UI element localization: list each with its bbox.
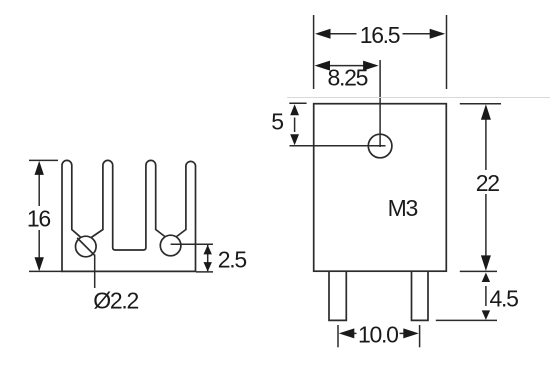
svg-text:8.25: 8.25 <box>328 65 368 91</box>
svg-text:M3: M3 <box>388 195 418 221</box>
svg-text:22: 22 <box>476 170 499 196</box>
svg-text:16: 16 <box>27 205 50 231</box>
svg-text:5: 5 <box>271 109 284 135</box>
svg-text:2.5: 2.5 <box>218 247 247 273</box>
svg-text:4.5: 4.5 <box>490 286 519 312</box>
svg-text:10.0: 10.0 <box>358 322 398 348</box>
svg-text:Ø2.2: Ø2.2 <box>93 287 138 313</box>
svg-text:16.5: 16.5 <box>360 22 400 48</box>
